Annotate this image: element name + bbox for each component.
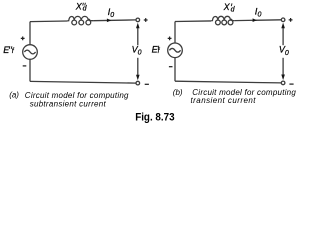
svg-text:(a): (a): [9, 91, 19, 100]
svg-text:X: X: [223, 2, 231, 12]
svg-text:E: E: [3, 45, 10, 55]
svg-text:subtransient current: subtransient current: [30, 99, 107, 108]
svg-text:X: X: [75, 2, 83, 12]
svg-text:(b): (b): [173, 88, 183, 97]
svg-text:Fig. 8.73: Fig. 8.73: [135, 112, 174, 124]
svg-text:transient current: transient current: [191, 96, 257, 105]
